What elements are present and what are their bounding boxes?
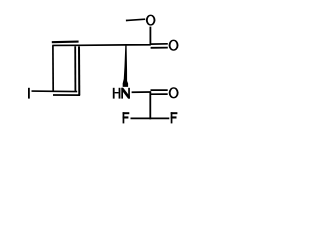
bond amide C to CF2 carbon [149, 92, 151, 119]
stereo wedge bond alpha C to N [123, 45, 128, 87]
atom label O (ester oxygen) [146, 15, 156, 26]
atom label F (left fluorine) [123, 112, 130, 123]
bond methyl to ester O [126, 19, 145, 20]
ring bottom double bond partner line [53, 94, 80, 96]
atom label H of HN [113, 88, 121, 99]
amide C=O upper line [151, 89, 168, 91]
atom label N of HN [121, 88, 130, 99]
atom label O (amide carbonyl oxygen) [169, 87, 179, 98]
ring right edge inner line [74, 46, 76, 92]
atom label F (right fluorine) [171, 112, 178, 123]
ester C=O lower partner line [151, 47, 168, 49]
bond I-C1 and ring bottom edge main line [32, 90, 78, 93]
atom label O (ester carbonyl oxygen) [169, 40, 179, 51]
ring right edge outer line [78, 46, 80, 95]
atom label I (iodine) [28, 88, 30, 99]
bond CF2 to right F [150, 117, 169, 119]
bond ester carbonyl C to ester O (vertical) [149, 27, 151, 45]
ester C=O upper line [151, 43, 168, 45]
ring top double bond partner line [52, 41, 79, 44]
bond N-C(=O) amide [132, 91, 152, 93]
bond CF2 to left F [131, 117, 151, 119]
wire: long chain line ring top edge through alpha C to ester carbonyl C [52, 44, 151, 47]
wire: ring left edge vertical [52, 45, 54, 91]
amide C=O lower line [150, 93, 168, 95]
